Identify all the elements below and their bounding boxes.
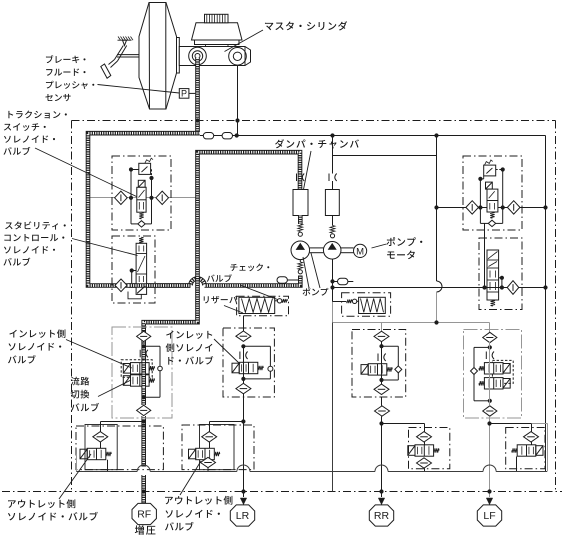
svg-text:M: M: [356, 247, 364, 258]
svg-text:RF: RF: [137, 509, 151, 521]
svg-text:LR: LR: [236, 510, 250, 522]
svg-text:LF: LF: [483, 510, 495, 522]
svg-text:P: P: [181, 89, 187, 99]
svg-text:RR: RR: [374, 510, 390, 522]
